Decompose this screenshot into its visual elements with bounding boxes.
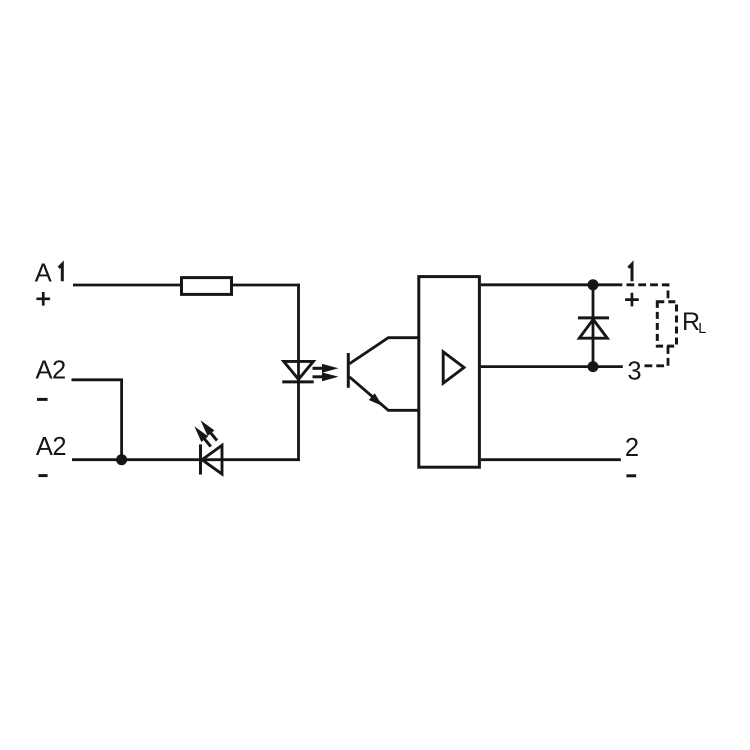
minus sign at A2 upper (37, 398, 48, 401)
light arrow to phototransistor lower (322, 372, 339, 381)
wire A2 lower (72, 458, 300, 461)
junction dot at A2 (116, 454, 127, 465)
terminal label 1 (628, 264, 632, 281)
amplifier triangle (443, 352, 464, 383)
minus sign at terminal 2 (626, 474, 636, 477)
svg-text:L: L (698, 321, 706, 337)
phototransistor emitter wire (350, 377, 419, 410)
plus sign at terminal 1 (625, 293, 639, 307)
minus sign at A2 lower (39, 474, 48, 477)
freewheeling diode cathode bar (578, 316, 609, 319)
freewheeling diode triangle (579, 319, 607, 338)
optocoupler LED cathode bar (282, 380, 313, 383)
wire output 3 (481, 365, 623, 368)
phototransistor collector wire (350, 338, 419, 364)
indicator LED light arrow upper (201, 420, 215, 436)
wire A2 upper down to junction (72, 380, 122, 460)
wire output 1 (481, 283, 622, 286)
phototransistor base bar (347, 353, 350, 388)
wire vertical through opto LED (297, 284, 300, 460)
wire diode branch (592, 285, 595, 367)
resistor (input series resistor) (182, 278, 232, 295)
light arrow to phototransistor upper (322, 364, 339, 373)
wire output 2 (481, 458, 621, 461)
wire A1 to resistor (73, 284, 181, 287)
load resistor RL dashed box (657, 302, 676, 346)
phototransistor emitter arrowhead (369, 393, 383, 406)
svg-text:3: 3 (627, 358, 641, 386)
dashed wire load to terminal 3 (641, 346, 669, 366)
junction dot node 3 (588, 361, 599, 372)
indicator LED cathode bar (199, 444, 202, 474)
svg-text:A: A (35, 260, 52, 288)
optocoupler LED triangle (284, 361, 314, 379)
output driver box (419, 277, 480, 468)
svg-text:A2: A2 (36, 433, 66, 461)
indicator LED triangle (202, 445, 222, 474)
svg-text:2: 2 (625, 434, 639, 462)
dashed wire terminal 1 to load (627, 285, 669, 302)
wire resistor to corner (232, 284, 300, 287)
svg-text:A2: A2 (35, 357, 65, 385)
indicator LED light arrow lower (194, 426, 208, 442)
junction dot node 1 (588, 279, 599, 290)
plus sign at A1 (36, 292, 50, 306)
